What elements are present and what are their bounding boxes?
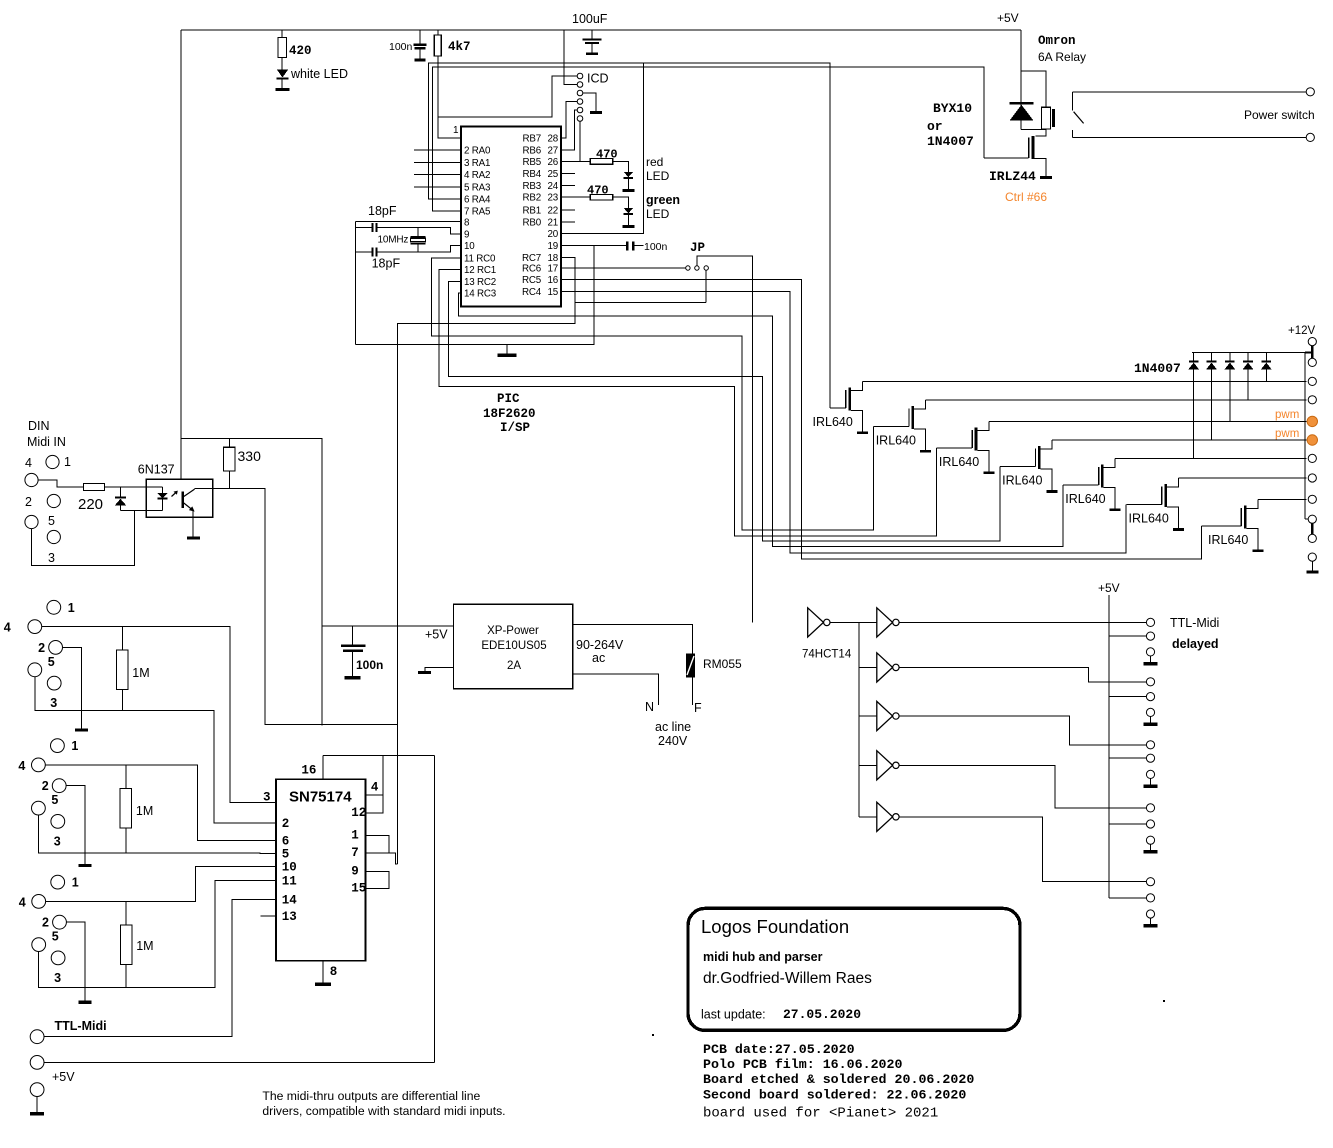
wire inv 2 output	[899, 621, 1146, 623]
svg-text:PIC: PIC	[497, 392, 520, 406]
ground psu 100n	[344, 676, 360, 680]
svg-text:2: 2	[25, 495, 32, 509]
svg-text:delayed: delayed	[1172, 637, 1219, 651]
wire source	[1167, 507, 1179, 528]
diode 1N4007 D5	[1265, 353, 1267, 361]
svg-text:10: 10	[464, 241, 475, 252]
node DIN-in p1	[46, 455, 59, 468]
svg-text:Polo PCB film: 16.06.2020: Polo PCB film: 16.06.2020	[703, 1057, 903, 1072]
svg-text:1N4007: 1N4007	[1134, 361, 1181, 376]
svg-text:21: 21	[548, 217, 559, 228]
svg-text:7 RA5: 7 RA5	[464, 207, 491, 218]
svg-text:28: 28	[548, 133, 559, 144]
resistor 1M A	[121, 627, 123, 651]
ground C	[79, 1001, 92, 1004]
svg-text:N: N	[645, 700, 654, 714]
wire net RC2 pin13 to Q4 gate	[448, 281, 1000, 541]
wire +12V bus vertical	[1304, 353, 1306, 520]
red LED	[613, 161, 629, 172]
wire B signal to SN75174	[45, 765, 276, 841]
wire TTL-Midi signal from SN75174 pin14	[44, 899, 276, 1036]
wire source	[1246, 528, 1258, 549]
svg-text:F: F	[694, 701, 702, 715]
node output connector pin 8 out Q6	[1308, 474, 1316, 482]
wire RC6 pin17 to JP	[561, 267, 686, 269]
node TTL delayed out 3 +5V	[1146, 754, 1154, 762]
svg-text:Logos Foundation: Logos Foundation	[701, 916, 849, 937]
node JP pin1	[686, 266, 690, 270]
fuse RM055	[686, 654, 695, 678]
ground below 100n	[415, 59, 426, 62]
svg-text:5: 5	[52, 930, 59, 944]
wire +5V spine ttl delayed	[1108, 595, 1110, 898]
svg-text:330: 330	[238, 448, 262, 464]
node DIN-out B p3	[51, 815, 65, 829]
svg-text:drivers, compatible with stand: drivers, compatible with standard midi i…	[262, 1104, 505, 1118]
wire source	[977, 451, 989, 472]
wire A signal to SN75174	[42, 627, 276, 803]
svg-text:1M: 1M	[136, 939, 153, 953]
svg-text:I/SP: I/SP	[500, 421, 530, 435]
svg-text:13: 13	[282, 910, 297, 924]
svg-text:last update:: last update:	[701, 1008, 766, 1022]
svg-text:ICD: ICD	[587, 72, 609, 86]
node ICD pin 2	[577, 82, 583, 88]
svg-text:18: 18	[548, 253, 559, 264]
svg-text:4 RA2: 4 RA2	[464, 170, 490, 181]
wire RB pin 21 stub	[561, 221, 575, 223]
wire +5V branch to 330/XP	[181, 438, 322, 725]
svg-text:220: 220	[78, 496, 103, 513]
wire A pin2 ground	[63, 647, 82, 728]
wire RA1 stub pin 3	[414, 161, 461, 163]
wire net RC0 pin11 to Q2 gate	[431, 258, 873, 530]
wire relay coil bottom to IRLZ44 drain	[1021, 130, 1046, 136]
svg-text:XP-Power: XP-Power	[487, 625, 539, 637]
wire left +5V vertical to opto	[180, 30, 182, 480]
wire JP3 to RX net	[705, 270, 707, 302]
wire inv 5 output	[899, 765, 1146, 808]
node output connector pin 7 out Q5	[1308, 454, 1316, 462]
node DIN-in p2	[47, 494, 60, 507]
node DIN-out A p5	[28, 663, 42, 677]
resistor 420	[281, 30, 283, 38]
svg-text:10: 10	[282, 860, 297, 874]
node ICD pin 3	[577, 90, 583, 96]
transistor IRL640 Q5 symbol	[1101, 465, 1104, 488]
svg-text:1: 1	[71, 739, 78, 753]
svg-text:100n: 100n	[644, 241, 668, 253]
wire 220 to opto LED	[105, 486, 163, 488]
wire +5V to group 3	[1109, 757, 1146, 759]
svg-text:RM055: RM055	[703, 657, 742, 671]
wire spine to inv 5	[859, 816, 877, 818]
wire drain	[851, 381, 863, 390]
wire +5V to group 4	[1109, 823, 1146, 825]
node ICD pin 5	[577, 107, 583, 113]
svg-text:dr.Godfried-Willem Raes: dr.Godfried-Willem Raes	[703, 970, 872, 987]
wire JP2 to 74HCT14 input	[697, 256, 753, 623]
ground opto emitter	[187, 536, 200, 539]
svg-text:4: 4	[371, 781, 379, 795]
node JP pin2	[695, 266, 699, 270]
wire OSC pin8 line	[355, 220, 461, 222]
wire net RA5 pin7 to IRLZ44 gate	[433, 67, 984, 211]
svg-text:5: 5	[51, 793, 58, 807]
node TTL delayed out 4 signal	[1146, 804, 1154, 812]
svg-text:EDE10US05: EDE10US05	[481, 640, 546, 652]
ground Q5 source	[1110, 508, 1121, 511]
wire data to inputs	[389, 853, 397, 864]
diode BYX10 flyback	[1009, 102, 1033, 105]
svg-text:3 RA1: 3 RA1	[464, 158, 490, 169]
wire inv 3 output	[899, 667, 1146, 681]
wire +5V to group 1	[1109, 635, 1146, 637]
svg-text:2: 2	[38, 641, 45, 655]
svg-text:RB1: RB1	[523, 205, 541, 216]
svg-text:15: 15	[548, 287, 559, 298]
svg-text:red: red	[646, 155, 663, 169]
wire +5V top rail	[181, 29, 1021, 31]
svg-text:74HCT14: 74HCT14	[802, 649, 852, 661]
svg-text:470: 470	[596, 148, 618, 162]
wire +5V down to TTL-midi out	[434, 756, 436, 1063]
wire Vss pin 19 net	[355, 246, 594, 345]
svg-text:ac: ac	[592, 651, 605, 665]
node DIN-out B p5	[32, 801, 46, 815]
svg-text:4: 4	[25, 456, 32, 470]
svg-text:IRLZ44: IRLZ44	[989, 169, 1036, 184]
svg-text:RC5: RC5	[522, 275, 542, 286]
wire +5V to relay	[1020, 30, 1022, 130]
wire RA0 stub pin 2	[414, 149, 461, 151]
ground Q3 source	[983, 471, 994, 474]
white LED D-white	[281, 58, 283, 70]
svg-text:18F2620: 18F2620	[483, 407, 536, 421]
wire inputs 1+7	[366, 836, 390, 853]
node TTL delayed out 3 signal	[1146, 741, 1154, 749]
svg-text:420: 420	[289, 44, 312, 58]
wire inv 4 output	[899, 716, 1146, 745]
wire TTL-Midi +5V	[44, 1061, 435, 1063]
inverter 74HCT14 2	[877, 608, 893, 637]
svg-text:IRL640: IRL640	[939, 455, 979, 469]
svg-text:board used for <Pianet> 2021: board used for <Pianet> 2021	[703, 1106, 938, 1122]
node ICD pin 1	[577, 73, 583, 79]
node power switch terminal 1	[1306, 88, 1314, 96]
svg-text:IRL640: IRL640	[1208, 533, 1248, 547]
stray dot 2	[1163, 1000, 1165, 1002]
svg-text:TTL-Midi: TTL-Midi	[55, 1019, 107, 1033]
svg-text:RB2: RB2	[523, 193, 541, 204]
wire spine to inv 2	[859, 666, 877, 668]
inverter 74HCT14 5	[877, 751, 893, 780]
inverter 74HCT14 A	[808, 608, 824, 637]
svg-text:pwm: pwm	[1275, 409, 1299, 421]
diode opto internal LED	[161, 487, 163, 493]
resistor 470 (green LED)	[561, 196, 590, 198]
node TTL delayed out 2 signal	[1146, 678, 1154, 686]
wire RB pin 22 stub	[561, 209, 575, 211]
ground group 1	[1144, 662, 1158, 666]
wire ICD2 to +5V	[564, 30, 577, 85]
node TTL delayed out 2 gnd	[1146, 708, 1154, 716]
op-amp SN75174 driver U3	[276, 779, 366, 961]
node output connector pin 1 +12V in	[1308, 338, 1316, 346]
diode 1N4007 D3	[1229, 353, 1231, 361]
node DIN-in p3	[47, 530, 60, 543]
node output connector pin 2 +12V in	[1308, 358, 1316, 366]
resistor 1M C	[125, 901, 127, 925]
op-amp PIC 18F2620 chip body U1	[461, 127, 561, 307]
svg-text:Board etched & soldered 20.06.: Board etched & soldered 20.06.2020	[703, 1072, 974, 1087]
node output connector pin 11 +12V out	[1308, 534, 1316, 542]
wire source	[914, 429, 926, 450]
wire RA3 stub pin 5	[414, 186, 461, 188]
svg-text:3: 3	[48, 551, 55, 565]
transistor IRLZ44 Q8	[1032, 136, 1035, 159]
ground below PIC	[506, 345, 508, 354]
svg-text:13 RC2: 13 RC2	[464, 277, 496, 288]
svg-text:2: 2	[42, 916, 49, 930]
wire ICD1 to MCLR	[439, 76, 578, 117]
wire +5V rail to SN75174	[323, 755, 435, 757]
ground Q6 source	[1173, 528, 1184, 531]
svg-text:8: 8	[330, 965, 338, 979]
node TTL delayed out 5 signal	[1146, 878, 1154, 886]
diode 1N4007 D4	[1247, 353, 1249, 361]
annotation box Logos Foundation	[688, 908, 1020, 1030]
wire RA2 stub pin 4	[414, 174, 461, 176]
wire opto LED return	[121, 510, 163, 512]
transistor IRL640 Q2 symbol	[912, 406, 915, 429]
wire RC7 pin18 RX net	[398, 258, 576, 865]
ground below white LED	[276, 88, 290, 91]
node DIN-in p5	[25, 515, 38, 528]
wire RB pin 25 stub	[561, 173, 575, 175]
svg-text:1: 1	[453, 125, 459, 136]
node DIN-out A p2	[49, 641, 63, 655]
wire pin16 Vcc	[322, 756, 324, 780]
svg-text:+5V: +5V	[1098, 581, 1120, 595]
node DIN-out B p4	[32, 758, 46, 772]
svg-text:RB7: RB7	[523, 133, 541, 144]
svg-text:Second board soldered: 22.06.2: Second board soldered: 22.06.2020	[703, 1087, 966, 1102]
svg-text:2: 2	[282, 817, 290, 831]
ground IRLZ44 source	[1040, 176, 1052, 179]
svg-text:6: 6	[282, 835, 290, 849]
svg-text:18pF: 18pF	[372, 257, 401, 271]
resistor 1M B	[125, 765, 127, 789]
node JP pin3	[704, 266, 708, 270]
svg-text:2: 2	[42, 779, 49, 793]
svg-text:JP: JP	[690, 241, 705, 255]
ground A	[75, 728, 88, 731]
svg-text:14: 14	[282, 893, 298, 907]
node TTL delayed out 3 gnd	[1146, 770, 1154, 778]
svg-text:9: 9	[464, 229, 469, 240]
svg-text:The midi-thru outputs are diff: The midi-thru outputs are differential l…	[262, 1089, 480, 1103]
svg-text:16: 16	[301, 764, 316, 778]
svg-text:RC4: RC4	[522, 287, 542, 298]
svg-text:+5V: +5V	[52, 1070, 75, 1084]
inverter 74HCT14 4	[877, 701, 893, 730]
wire drain	[914, 400, 926, 409]
svg-text:Omron: Omron	[1038, 34, 1076, 48]
node DIN-in p4	[25, 473, 38, 486]
node output connector pin 12 GND	[1308, 553, 1316, 561]
svg-text:5 RA3: 5 RA3	[464, 182, 491, 193]
opto light arrow	[172, 491, 178, 497]
transistor IRL640 Q3 symbol	[975, 428, 978, 451]
node DIN-out B p2	[52, 779, 66, 793]
node output connector pin 9 out Q7	[1308, 495, 1316, 503]
node TTL delayed out 2 +5V	[1146, 693, 1154, 701]
wire Vdd pin 20 net	[561, 63, 644, 234]
svg-text:Power switch: Power switch	[1244, 108, 1315, 122]
node output connector pin 6 pwm out Q4	[1307, 435, 1317, 445]
svg-text:1M: 1M	[136, 804, 153, 818]
svg-text:1N4007: 1N4007	[927, 134, 974, 149]
svg-text:1: 1	[68, 601, 75, 615]
resistor 470 (red LED)	[561, 160, 590, 162]
ground group 5	[1144, 924, 1158, 928]
wire ICD6 to RB5 pin26	[579, 121, 581, 161]
wire +12V out pair link	[1311, 523, 1313, 534]
resistor 220	[84, 484, 105, 491]
svg-text:+12V: +12V	[1288, 325, 1316, 337]
svg-text:IRL640: IRL640	[1065, 492, 1105, 506]
wire XP mains F	[573, 624, 693, 653]
node DIN-out A p1	[47, 600, 61, 614]
node TTL delayed out 1 +5V	[1146, 632, 1154, 640]
svg-text:100n: 100n	[356, 658, 383, 672]
wire drain	[977, 421, 989, 430]
svg-text:+5V: +5V	[997, 11, 1019, 25]
svg-text:22: 22	[548, 205, 559, 216]
svg-text:27: 27	[548, 145, 559, 156]
svg-text:18pF: 18pF	[368, 204, 397, 218]
node DIN-out B p1	[51, 739, 65, 753]
node TTL-Midi signal	[30, 1030, 44, 1044]
transistor IRL640 Q7 symbol	[1244, 505, 1247, 528]
svg-text:3: 3	[54, 971, 61, 985]
node TTL delayed out 1 signal	[1146, 618, 1154, 626]
svg-text:Midi IN: Midi IN	[27, 435, 66, 449]
wire RX branch to JP3	[575, 302, 706, 304]
ground SN75174 pin8	[315, 983, 331, 987]
node output connector pin 4 out Q2	[1308, 396, 1316, 404]
wire B pin2 ground	[66, 786, 85, 864]
node output connector pin 3 out Q1	[1308, 377, 1316, 385]
node DIN-out A p4	[28, 620, 42, 634]
svg-text:20: 20	[548, 229, 559, 240]
wire RB pin 24 stub	[561, 185, 575, 187]
wire pin9 OSC1	[378, 227, 462, 234]
capacitor 100n (psu)	[351, 626, 353, 644]
node ICD pin 6	[577, 116, 583, 122]
svg-text:IRL640: IRL640	[1129, 512, 1169, 526]
diode 1N4007 D1	[1193, 353, 1195, 361]
node DIN-out C p3	[51, 951, 65, 965]
node TTL-Midi +5V	[30, 1056, 44, 1070]
wire net RC1 pin12 to Q3 gate	[439, 270, 937, 536]
resistor 4k7	[437, 30, 439, 35]
wire +5V from XP-Power	[322, 625, 454, 627]
svg-text:PCB date:27.05.2020: PCB date:27.05.2020	[703, 1042, 855, 1057]
wire C signal to SN75174	[46, 866, 276, 901]
stray dot 1	[652, 1034, 654, 1036]
ground green LED	[622, 225, 634, 228]
wire C shield line	[39, 881, 276, 988]
svg-text:5: 5	[48, 514, 55, 528]
svg-text:27.05.2020: 27.05.2020	[783, 1007, 861, 1022]
svg-text:100uF: 100uF	[572, 12, 608, 26]
transistor IRL640 Q6 symbol	[1164, 484, 1167, 507]
svg-text:RB6: RB6	[523, 145, 542, 156]
node TTL delayed out 4 gnd	[1146, 836, 1154, 844]
capacitor 100n (pin19)	[626, 242, 629, 251]
wire 4k7 to MCLR pin1	[438, 56, 461, 138]
wire pins 4+12 enable to +5V	[366, 794, 383, 796]
node DIN-out C p1	[51, 875, 65, 889]
svg-text:RB0: RB0	[523, 217, 542, 228]
svg-text:IRL640: IRL640	[1002, 474, 1042, 488]
green LED	[613, 197, 629, 208]
svg-text:RC7: RC7	[522, 253, 541, 264]
ground group 3	[1144, 784, 1158, 788]
wire inv A out to spine	[830, 621, 877, 623]
inverter 74HCT14 6	[877, 802, 893, 831]
svg-text:8: 8	[464, 217, 470, 228]
wire net RC3 pin14 to Q5 gate	[458, 293, 1063, 546]
wire ICD3 to ground	[583, 93, 596, 111]
svg-text:1: 1	[351, 829, 359, 843]
wire opto collector output	[195, 489, 398, 725]
svg-text:12 RC1: 12 RC1	[464, 265, 496, 276]
ground output connector	[1311, 561, 1313, 570]
ground Q2 source	[920, 450, 931, 453]
node DIN-out C p5	[32, 938, 46, 952]
svg-text:white LED: white LED	[290, 67, 348, 81]
svg-text:BYX10: BYX10	[933, 101, 972, 116]
wire drain	[1167, 478, 1179, 487]
wire C pin2 ground	[66, 922, 85, 1000]
svg-text:3: 3	[50, 696, 57, 710]
wire pin10 OSC2	[378, 246, 462, 252]
svg-text:26: 26	[548, 157, 559, 168]
wire pin8 ground	[322, 961, 324, 983]
node DIN-out C p4	[32, 895, 46, 909]
node TTL delayed out 5 gnd	[1146, 910, 1154, 918]
svg-text:11: 11	[282, 875, 297, 889]
wire source	[1104, 488, 1116, 509]
ground group 4	[1144, 850, 1158, 854]
svg-text:4: 4	[4, 621, 11, 635]
wire opto emitter to ground	[192, 511, 194, 537]
ground TTL-Midi	[30, 1112, 44, 1116]
switch power contacts	[1072, 91, 1306, 93]
svg-text:24: 24	[548, 181, 559, 192]
node TTL delayed out 1 gnd	[1146, 648, 1154, 656]
svg-text:2 RA0: 2 RA0	[464, 146, 491, 157]
svg-text:25: 25	[548, 169, 559, 180]
svg-text:17: 17	[548, 264, 559, 275]
wire drain	[1246, 499, 1258, 508]
ground XP-Power	[425, 667, 454, 671]
node TTL-Midi ground pin	[30, 1083, 44, 1097]
wire source	[1041, 469, 1053, 490]
